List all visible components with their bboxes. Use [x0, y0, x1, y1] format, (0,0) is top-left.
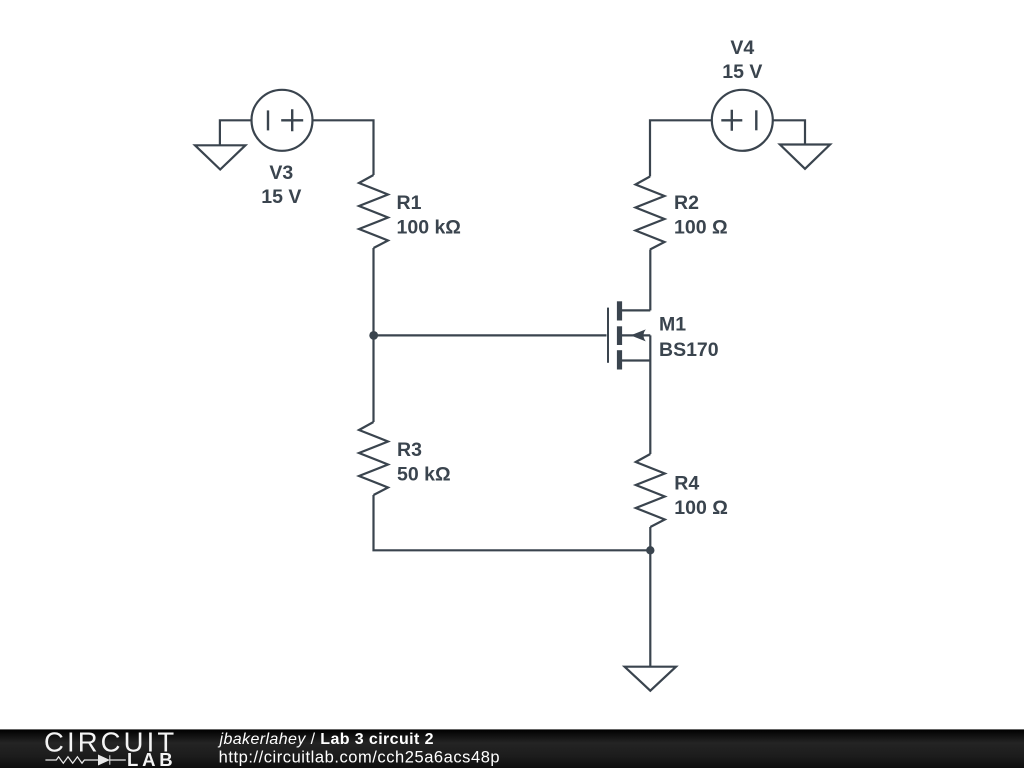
- resistor R1: [359, 175, 388, 248]
- wire M1 drain to R2 bottom: [649, 250, 651, 311]
- svg-text:15 V: 15 V: [261, 186, 301, 208]
- svg-text:R3: R3: [397, 439, 422, 461]
- svg-text:V3: V3: [269, 162, 293, 184]
- resistor R4: [636, 454, 665, 527]
- wire V3 left lead: [220, 120, 251, 145]
- svg-text:R4: R4: [674, 473, 699, 495]
- ground GND1 (V3): [195, 145, 245, 169]
- node junction A: [369, 331, 378, 340]
- wire node B to bottom ground: [649, 550, 651, 666]
- node junction B (bottom): [646, 546, 654, 554]
- svg-text:R1: R1: [397, 192, 422, 214]
- wire R4 bottom to node B: [649, 527, 651, 550]
- svg-text:http://circuitlab.com/cch25a6a: http://circuitlab.com/cch25a6acs48p: [219, 748, 501, 766]
- footer bar: [0, 729, 1024, 768]
- wire V3 right to R1 top: [313, 120, 374, 175]
- svg-text:LAB: LAB: [127, 749, 176, 768]
- resistor R3: [359, 422, 388, 495]
- resistor R2: [636, 177, 665, 250]
- ground GND2 (V4): [780, 145, 830, 169]
- svg-text:100 kΩ: 100 kΩ: [397, 217, 461, 239]
- svg-text:jbakerlahey / Lab 3 circuit 2: jbakerlahey / Lab 3 circuit 2: [218, 731, 434, 748]
- wire M1 source/bulk down to R4 top: [649, 335, 651, 454]
- svg-text:BS170: BS170: [659, 339, 719, 361]
- ground GND3 (bottom): [625, 667, 676, 691]
- svg-text:100 Ω: 100 Ω: [674, 217, 728, 239]
- svg-text:M1: M1: [659, 314, 686, 336]
- transistor M1 (NMOS BS170): [608, 301, 650, 369]
- wire R3 bottom to bottom rail: [374, 495, 651, 550]
- svg-text:V4: V4: [730, 37, 754, 59]
- wire gate (node to M1 gate): [374, 334, 607, 336]
- wire R1 bottom through node to R3 top: [372, 248, 374, 422]
- voltage source V4: [712, 90, 773, 151]
- svg-text:50 kΩ: 50 kΩ: [397, 464, 451, 486]
- voltage source V3: [252, 90, 313, 151]
- wire V4 right lead: [773, 120, 805, 144]
- logo resistor-diode glyph: [45, 755, 125, 764]
- svg-text:15 V: 15 V: [722, 61, 762, 83]
- wire R2 top to V4: [650, 120, 712, 176]
- svg-text:R2: R2: [674, 192, 699, 214]
- svg-text:100 Ω: 100 Ω: [674, 497, 728, 519]
